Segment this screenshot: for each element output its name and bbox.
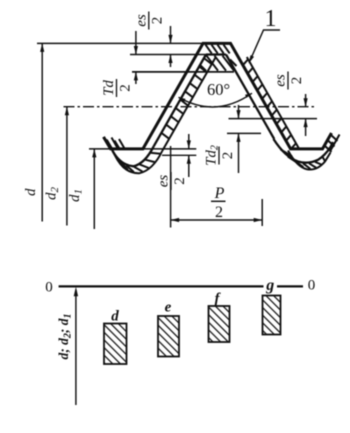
left root curve (upper limit) <box>107 141 154 167</box>
basic thread profile (thick outline) <box>104 43 332 148</box>
svg-text:0: 0 <box>308 278 316 294</box>
hatching: left stub <box>107 140 113 149</box>
svg-text:e: e <box>165 300 172 316</box>
root line extension (d1 level) <box>89 148 196 150</box>
P/2 dimension line <box>171 219 263 221</box>
label es/2 lower left <box>156 172 188 190</box>
root lower line H2 <box>162 154 196 156</box>
svg-text:P: P <box>214 185 225 202</box>
zero line left segment <box>59 285 264 287</box>
svg-text:d: d <box>23 188 39 196</box>
label d1 <box>67 189 85 202</box>
hatching: band B-C <box>200 65 207 71</box>
right root curve (upper limit) <box>274 139 334 163</box>
tolerance box g <box>263 296 281 335</box>
P/2 extension line right <box>261 199 263 226</box>
pitch line (dash-dot) <box>64 106 317 108</box>
pitch lower-limit line E <box>227 132 261 134</box>
label d <box>23 188 39 196</box>
tolerance box e <box>158 316 179 357</box>
leader line for item 1 <box>249 30 280 62</box>
diameter axis arrow <box>75 290 77 405</box>
dimension Td/2 <box>135 31 137 55</box>
60 degree arc <box>179 93 253 107</box>
dimension line d <box>41 43 43 221</box>
right root curve (lower limit) <box>288 151 331 170</box>
svg-text:d: d <box>111 309 119 325</box>
svg-text:2: 2 <box>172 177 188 185</box>
zero line right segment <box>277 285 303 287</box>
upper-limit right flank <box>226 55 274 140</box>
dimension es/2 lower left <box>188 134 190 149</box>
hatching: right stub <box>325 146 332 152</box>
svg-text:Td: Td <box>101 80 117 96</box>
svg-text:2: 2 <box>117 84 133 92</box>
left root curve (lower limit) <box>113 151 163 173</box>
label d2 <box>44 187 62 201</box>
svg-text:es: es <box>156 175 172 188</box>
crest lower-limit line C <box>132 71 234 73</box>
dimension line d2 <box>66 107 68 226</box>
crest line B extension <box>130 54 206 56</box>
lower-limit left flank <box>162 58 215 152</box>
svg-text:es: es <box>133 14 149 27</box>
pitch upper-limit line D <box>229 118 318 120</box>
hatching: crest band A-B <box>206 45 212 54</box>
label es/2 right <box>273 72 305 90</box>
crest extension line (upper limit of d) <box>37 42 203 44</box>
svg-text:1: 1 <box>265 6 277 32</box>
svg-text:60°: 60° <box>207 80 230 99</box>
dimension Td2/2 <box>238 105 240 119</box>
outer band line on right flank <box>247 57 300 150</box>
tolerance box f <box>209 306 230 342</box>
upper-limit profile crest <box>206 53 226 55</box>
P/2 extension line left <box>170 146 172 228</box>
dimension line d1 <box>93 149 95 229</box>
svg-text:2: 2 <box>150 17 166 25</box>
hatching: left flank band <box>204 59 211 64</box>
svg-text:g: g <box>265 277 274 294</box>
upper-limit left flank <box>154 55 206 147</box>
svg-text:2: 2 <box>220 152 236 160</box>
tolerance box d <box>104 324 127 365</box>
dimension es/2 top <box>170 26 172 43</box>
svg-text:2: 2 <box>215 204 223 221</box>
left stub band lines <box>112 138 118 149</box>
hatching: right root zone <box>281 149 293 156</box>
svg-text:es: es <box>273 74 289 87</box>
label Td2/2 <box>204 145 236 166</box>
svg-text:2: 2 <box>289 77 305 85</box>
label Td/2 <box>101 79 133 97</box>
svg-text:0: 0 <box>45 280 53 296</box>
hatching: right flank band <box>243 60 248 65</box>
hatching: left root zone <box>151 153 161 154</box>
axis label d; d2; d1 <box>56 314 73 360</box>
right stub band line <box>331 135 340 151</box>
dimension es/2 right <box>305 94 307 107</box>
label es/2 top <box>133 12 165 30</box>
